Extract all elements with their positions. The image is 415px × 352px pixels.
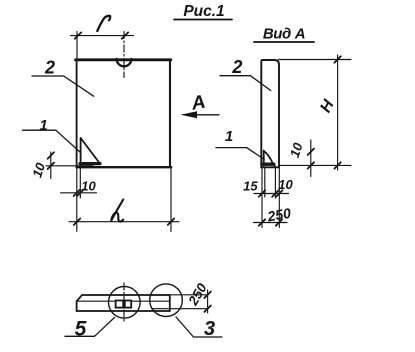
extension line strip right bottom xyxy=(278,167,280,228)
svg-text:1: 1 xyxy=(39,117,47,134)
svg-text:2: 2 xyxy=(44,58,55,78)
extension line plate bottom-left xyxy=(76,167,78,231)
dimension L xyxy=(69,200,179,225)
extension line gusset left bottom xyxy=(264,167,266,197)
label 2 (front view) xyxy=(32,58,94,97)
notch arc at plate top xyxy=(117,59,132,66)
extension line strip top right xyxy=(278,59,351,61)
svg-text:Рис.1: Рис.1 xyxy=(183,3,224,20)
title Вид А xyxy=(254,26,314,43)
label 2 (side view) xyxy=(220,57,271,91)
detail rect item 5 xyxy=(116,301,132,308)
extension line strip bottom right xyxy=(278,164,351,166)
extension line gusset edge xyxy=(79,165,81,198)
callout circle item 3 xyxy=(150,284,183,317)
label 1 (side view) xyxy=(216,128,264,160)
extension line gusset right bottom xyxy=(274,167,276,198)
svg-text:10: 10 xyxy=(287,140,306,159)
centerline through detail xyxy=(123,283,125,324)
notch centerline xyxy=(123,32,125,78)
dimension H xyxy=(317,55,340,170)
extension line strip left bottom xyxy=(261,167,263,228)
horizontal dimension 10 (front view bottom) xyxy=(61,179,97,197)
strip outline (side view) xyxy=(261,60,279,167)
label 3 xyxy=(176,317,222,340)
gusset triangle (front view) xyxy=(80,138,100,165)
view arrow А xyxy=(181,92,220,119)
bar outline (bottom view) xyxy=(77,295,170,311)
dimension 10 (side view vertical) xyxy=(287,140,314,177)
gusset (side view) xyxy=(262,151,276,168)
svg-text:10: 10 xyxy=(29,160,48,179)
svg-text:2: 2 xyxy=(231,57,242,77)
dimension г xyxy=(71,16,134,39)
svg-text:250: 250 xyxy=(265,205,292,225)
svg-text:Н: Н xyxy=(317,97,338,116)
callout circle item 5 xyxy=(109,287,141,319)
svg-text:А: А xyxy=(189,92,207,115)
label 5 xyxy=(65,318,115,341)
svg-text:Вид А: Вид А xyxy=(263,26,305,43)
dimension 250 (bottom view) xyxy=(170,280,211,313)
plate outline (front view) xyxy=(76,60,172,167)
dimension 15 and 10 (side view bottom) xyxy=(243,177,293,197)
svg-text:1: 1 xyxy=(225,128,233,145)
dimension 250 (side view bottom) xyxy=(254,205,293,226)
vertical dimension 10 (front view) xyxy=(29,152,93,179)
label 1 (front view) xyxy=(23,117,81,153)
svg-text:10: 10 xyxy=(81,179,96,194)
svg-text:10: 10 xyxy=(278,177,293,192)
svg-text:15: 15 xyxy=(243,179,258,194)
title Рис.1 xyxy=(174,3,232,20)
extension line plate bottom-right xyxy=(170,167,172,231)
extension line plate top-left xyxy=(76,32,78,59)
svg-text:5: 5 xyxy=(75,318,87,341)
